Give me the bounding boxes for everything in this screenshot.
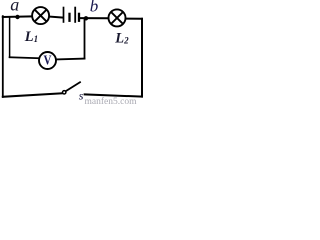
svg-text:manfen5.com: manfen5.com [85,96,138,105]
svg-text:a: a [10,0,19,15]
svg-text:V: V [44,53,52,68]
svg-text:b: b [90,0,99,16]
svg-text:s: s [79,89,84,103]
